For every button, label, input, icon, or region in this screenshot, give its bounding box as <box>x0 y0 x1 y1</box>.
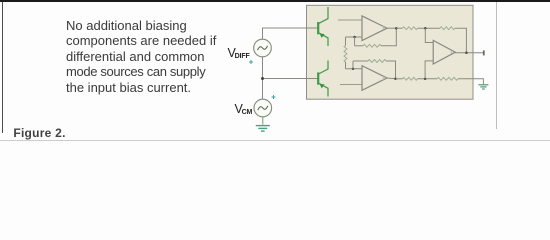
wire top path to branch node <box>418 27 441 29</box>
right frame line <box>496 2 497 129</box>
node A1 inverting junction <box>353 36 356 39</box>
wire VCM bottom stub <box>262 117 264 125</box>
resistor R6 to ground <box>437 77 458 80</box>
amplifier block background box <box>307 5 474 99</box>
voltage source VCM <box>254 99 272 117</box>
wire top horizontal to Q1 base <box>262 27 318 29</box>
op-amp A3 <box>433 40 455 64</box>
wire to ground corner <box>458 79 483 84</box>
op-amp A1 interior mark <box>382 26 384 30</box>
ground below VCM <box>256 126 270 132</box>
node A3 noninverting branch <box>424 78 427 81</box>
output terminal <box>483 50 485 55</box>
bottom rule <box>0 140 550 141</box>
node junction of sources <box>261 77 264 80</box>
figure label <box>13 126 65 140</box>
op-amp A1 <box>362 16 387 41</box>
op-amp A3 interior mark <box>450 50 452 54</box>
node A2 inverting junction <box>352 68 355 71</box>
wire feedback to output <box>455 28 466 53</box>
resistor RG vertical <box>344 37 347 69</box>
wire bottom path segment <box>396 78 403 80</box>
resistor R3 <box>403 27 418 30</box>
resistor R4 <box>403 77 418 80</box>
resistor RF2 feedback bottom <box>353 60 396 79</box>
node A3 inverting branch <box>424 27 427 30</box>
plus mark of VCM <box>272 95 276 99</box>
resistor RF1 feedback top <box>355 28 397 47</box>
wire A1 output <box>387 27 396 29</box>
wire top path segment <box>396 27 402 29</box>
op-amp A2 interior mark <box>382 76 384 80</box>
resistor R5 feedback <box>440 27 455 30</box>
left frame line <box>2 2 3 133</box>
wire V_DIFF bottom to V_CM top <box>262 57 264 99</box>
op-amp A2 <box>362 66 387 91</box>
wire A3 inverting drop <box>425 28 433 42</box>
wire A3 output <box>455 52 483 54</box>
wire A2 output <box>387 77 396 80</box>
node A3 output junction <box>465 52 468 55</box>
label V_DIFF <box>228 46 250 60</box>
voltage source VDIFF <box>254 39 272 57</box>
caption paragraph <box>66 18 266 96</box>
transistor Q2 <box>318 61 328 97</box>
wire A1 inverting input <box>346 36 363 38</box>
wire A2 inverting input <box>346 68 363 70</box>
wire A2 noninverting input <box>340 84 362 86</box>
wire A2 feedback rise <box>352 61 354 69</box>
ground at output side <box>478 85 488 89</box>
label V_CM <box>235 102 253 116</box>
node A2 output junction <box>394 78 397 81</box>
node A1 output junction <box>395 27 398 30</box>
wire mid horizontal to Q2 base <box>263 78 318 80</box>
wire bottom path to branch node <box>418 78 438 80</box>
wire A3 noninverting rise <box>425 61 433 79</box>
wire V_DIFF top vertical <box>262 28 264 39</box>
plus mark of VDIFF <box>249 60 253 64</box>
transistor Q1 <box>318 7 328 46</box>
wire A1 noninverting input <box>338 19 362 21</box>
top window border bar <box>0 0 550 2</box>
wire A1 feedback drop <box>354 37 356 46</box>
